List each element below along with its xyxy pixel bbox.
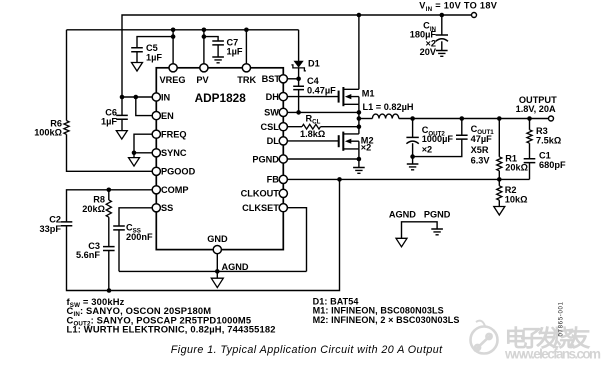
- svg-text:FB: FB: [267, 175, 280, 185]
- resistor R3 7.5k: [529, 119, 531, 130]
- svg-text:07865-001: 07865-001: [558, 301, 564, 336]
- svg-text:FREQ: FREQ: [161, 130, 187, 140]
- svg-text:Figure 1. Typical Application: Figure 1. Typical Application Circuit wi…: [171, 344, 443, 356]
- svg-text:47µF: 47µF: [471, 134, 493, 144]
- wire FB net: [283, 178, 529, 180]
- wire SS pin: [119, 208, 156, 226]
- wire TRK pin drop: [245, 30, 247, 68]
- wire GND pin stem: [216, 250, 218, 279]
- svg-text:AGND: AGND: [389, 209, 416, 219]
- svg-text:www.elecfans.com: www.elecfans.com: [504, 347, 601, 362]
- capacitor CSS 200nF: [113, 226, 125, 230]
- svg-text:×2: ×2: [361, 143, 371, 153]
- svg-text:1.8V, 20A: 1.8V, 20A: [516, 104, 556, 114]
- svg-text:L1: WURTH ELEKTRONIC, 0.82µH,: L1: WURTH ELEKTRONIC, 0.82µH, 744355182: [67, 324, 276, 335]
- svg-text:1µF: 1µF: [146, 52, 162, 62]
- wire VREG pin drop: [172, 30, 174, 68]
- svg-text:L1 = 0.82µH: L1 = 0.82µH: [363, 102, 414, 112]
- ground legend AGND: [396, 238, 407, 247]
- svg-text:TRK: TRK: [237, 75, 256, 85]
- svg-text:DH: DH: [266, 92, 280, 102]
- svg-text:CSL: CSL: [261, 122, 280, 132]
- wire DH pin to M1 gate: [283, 96, 338, 98]
- diode D1 BAT54 schottky: [298, 30, 300, 61]
- svg-text:BST: BST: [262, 74, 281, 84]
- svg-text:20kΩ: 20kΩ: [82, 204, 105, 214]
- svg-text:GND: GND: [207, 234, 228, 244]
- svg-text:10kΩ: 10kΩ: [505, 195, 528, 205]
- svg-text:X5R: X5R: [471, 145, 489, 155]
- wire AGND rail: [119, 270, 307, 272]
- svg-text:×2: ×2: [422, 145, 432, 155]
- capacitor C6 1uF: [121, 97, 123, 115]
- wire CLKSET to AGND rail: [283, 208, 306, 272]
- svg-text:1000µF: 1000µF: [422, 134, 454, 144]
- transistor M2 nmos: [339, 127, 359, 151]
- svg-text:CLKSET: CLKSET: [242, 203, 279, 213]
- capacitor C2 33pF: [61, 222, 73, 226]
- svg-text:7.5kΩ: 7.5kΩ: [536, 136, 561, 146]
- svg-text:AGND: AGND: [222, 262, 249, 272]
- wire VIN top rail: [122, 15, 472, 97]
- capacitor C5 1uF: [137, 37, 173, 48]
- wire COMP net: [67, 190, 157, 222]
- svg-text:SW: SW: [264, 108, 279, 118]
- terminal VIN: [472, 13, 477, 18]
- transistor M1 nmos: [339, 15, 359, 106]
- resistor R1 20k: [498, 119, 500, 157]
- svg-text:PGOOD: PGOOD: [161, 167, 196, 177]
- svg-text:IN: IN: [161, 92, 171, 102]
- ground CIN PGND: [436, 51, 448, 57]
- svg-text:PGND: PGND: [424, 209, 451, 219]
- wire BST pin: [283, 78, 298, 80]
- wire IN pin: [122, 96, 156, 98]
- svg-text:EN: EN: [161, 111, 174, 121]
- resistor R2 10k: [498, 179, 500, 185]
- svg-text:ADP1828: ADP1828: [195, 91, 247, 105]
- wire CSL pin: [283, 126, 302, 128]
- svg-text:M1: M1: [362, 89, 375, 99]
- svg-text:200nF: 200nF: [126, 232, 153, 242]
- svg-text:SS: SS: [161, 203, 173, 213]
- resistor R8 20k: [108, 190, 110, 200]
- svg-text:33pF: 33pF: [40, 224, 62, 234]
- ground C5 AGND: [132, 63, 143, 72]
- svg-text:20V: 20V: [420, 47, 437, 57]
- svg-text:5.6nF: 5.6nF: [76, 250, 100, 260]
- watermark logo circle: [471, 321, 498, 354]
- ground AGND symbol: [211, 278, 223, 287]
- svg-text:1µF: 1µF: [101, 117, 117, 127]
- wire PGND pin: [283, 158, 359, 160]
- svg-text:PGND: PGND: [252, 154, 279, 164]
- ground COUT PGND: [412, 157, 414, 164]
- resistor R6 100k: [66, 30, 68, 121]
- ground PGND node: [358, 159, 360, 168]
- svg-text:D1: D1: [308, 58, 320, 68]
- svg-text:CLKOUT: CLKOUT: [241, 189, 280, 199]
- capacitor COUT1 47uF: [461, 119, 463, 136]
- svg-text:M2: INFINEON, 2 × BSC030N03LS: M2: INFINEON, 2 × BSC030N03LS: [313, 315, 460, 325]
- ground R2 AGND: [494, 207, 505, 216]
- op-amp U1 ADP1828 controller box: [156, 68, 283, 250]
- svg-text:PV: PV: [196, 75, 209, 85]
- wire EN branch: [136, 97, 157, 116]
- ground FREQ/SYNC AGND: [129, 158, 140, 167]
- wire FREQ/SYNC to ground: [134, 134, 156, 153]
- node pin circles: [152, 64, 287, 254]
- capacitor C1 680pF: [524, 159, 536, 163]
- svg-text:20kΩ: 20kΩ: [505, 163, 528, 173]
- ground C6 AGND: [116, 131, 127, 140]
- wire M2 source to PGND node: [358, 149, 360, 159]
- svg-text:1µF: 1µF: [227, 47, 243, 57]
- ground C7 PGND: [212, 57, 224, 63]
- terminal OUTPUT: [549, 116, 554, 121]
- wire PV pin drop: [203, 30, 205, 68]
- capacitor C4 0.47uF: [298, 79, 300, 86]
- wire SW pin: [283, 111, 359, 113]
- inductor L1: [359, 118, 373, 120]
- svg-text:COMP: COMP: [161, 185, 189, 195]
- capacitor C7 1uF: [204, 37, 218, 41]
- capacitor COUT2 1000uF: [412, 119, 414, 138]
- svg-text:DL: DL: [267, 136, 280, 146]
- resistor RCL 1.8k: [302, 124, 321, 129]
- pin labels: [160, 74, 281, 244]
- wire M1 source to SW node: [358, 104, 360, 126]
- wire output rail: [399, 118, 549, 120]
- svg-text:6.3V: 6.3V: [471, 156, 491, 166]
- wire VREG rail: [67, 29, 299, 31]
- wire DL pin to M2 gate: [283, 140, 338, 142]
- svg-text:SYNC: SYNC: [161, 148, 187, 158]
- ground legend PGND: [431, 229, 443, 235]
- capacitor C3 5.6nF: [108, 217, 110, 246]
- svg-text:680pF: 680pF: [539, 160, 566, 170]
- capacitor CIN 180uF: [441, 15, 443, 35]
- svg-text:0.47µF: 0.47µF: [307, 86, 336, 96]
- svg-text:1.8kΩ: 1.8kΩ: [300, 129, 325, 139]
- svg-text:100kΩ: 100kΩ: [34, 128, 62, 138]
- svg-text:C4: C4: [307, 76, 320, 86]
- svg-text:VREG: VREG: [160, 75, 186, 85]
